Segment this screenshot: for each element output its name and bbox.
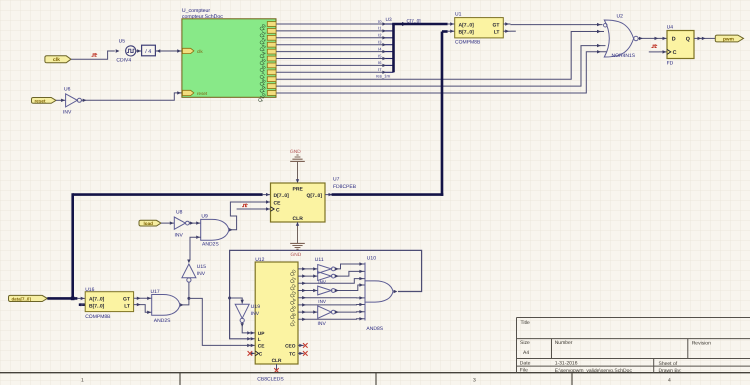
zone dividers	[180, 373, 572, 385]
svg-text:D: D	[672, 37, 676, 43]
U12 C pin no-connect X	[248, 351, 253, 356]
inverter U11 (row Q0)	[318, 265, 335, 274]
svg-text:U16: U16	[85, 287, 94, 293]
wire Q6 to bus entry I6	[276, 60, 393, 67]
junction dot for U19 branch	[228, 297, 231, 300]
wire U12 Q7 to U10 input	[298, 317, 365, 321]
wire U6 to sheet reset pin	[81, 93, 182, 100]
svg-text:Drawn By:: Drawn By:	[659, 368, 682, 374]
svg-text:INV: INV	[251, 311, 260, 317]
and gate U10 AND8S	[365, 256, 397, 333]
wire Q4 to bus entry I4	[276, 46, 393, 53]
GND power port below U7 CLR	[290, 222, 305, 258]
svg-text:FD8CPEB: FD8CPEB	[333, 184, 357, 190]
svg-text:CB8CLEDS: CB8CLEDS	[257, 376, 284, 382]
svg-text:CEO: CEO	[285, 344, 296, 350]
wire clk to U5	[71, 51, 115, 59]
inverter U11 (row Q3)	[318, 286, 335, 295]
wire U9 out to U7 CE	[229, 202, 238, 230]
svg-text:D[7..0]: D[7..0]	[274, 193, 290, 199]
svg-text:U7: U7	[333, 177, 340, 183]
svg-text:INV: INV	[197, 271, 206, 277]
and gate U17 AND2S	[151, 289, 184, 324]
svg-text:B[7..0]: B[7..0]	[89, 304, 105, 310]
svg-text:U2: U2	[617, 14, 624, 20]
wire U16 GT to U17 input 1	[134, 297, 152, 299]
wire U15 to U9 input 2	[190, 237, 201, 260]
inverter U11 (row Q1)	[318, 272, 335, 281]
sheet entry Q6	[259, 63, 276, 74]
counter U12 CB8CLEDS	[247, 257, 298, 383]
wire U12 Q6 to inverter	[298, 310, 318, 313]
wire U5 to /4 box	[136, 50, 142, 52]
svg-text:LT: LT	[494, 30, 500, 36]
U12 CLR stub and X	[276, 364, 278, 370]
svg-text:U1: U1	[455, 11, 462, 17]
sheet entry Q9	[259, 84, 276, 95]
sheet entry Q2	[259, 35, 276, 46]
svg-text:/ 4: / 4	[145, 49, 151, 55]
wire Q5 to bus entry I5	[276, 53, 393, 60]
svg-text:Revision: Revision	[692, 340, 711, 346]
svg-text:reset: reset	[197, 91, 208, 96]
title block	[517, 318, 750, 373]
wire Q9 to U2 input 3	[276, 44, 605, 86]
bus stub to U1 B	[442, 30, 448, 33]
svg-text:Q: Q	[686, 37, 690, 43]
wire inverter out to U10 input	[335, 262, 365, 270]
wire U12 Q3 to inverter	[298, 289, 318, 292]
wire reset port to U6	[56, 99, 66, 101]
svg-text:A[7..0]: A[7..0]	[459, 22, 475, 28]
svg-text:U15: U15	[197, 264, 206, 270]
svg-text:A4: A4	[523, 350, 529, 356]
svg-text:Size: Size	[520, 340, 530, 346]
svg-text:GT: GT	[493, 22, 500, 28]
svg-text:COMPM8B: COMPM8B	[455, 40, 481, 46]
wire Q0 to bus entry I0	[276, 19, 393, 26]
svg-text:COMPM8B: COMPM8B	[85, 314, 111, 320]
sheet entry Q8	[259, 77, 276, 88]
svg-text:A[7..0]: A[7..0]	[89, 296, 105, 302]
svg-text:INV: INV	[318, 299, 327, 304]
svg-text:UP: UP	[258, 331, 265, 337]
svg-text:L: L	[258, 337, 261, 343]
port data[7..0]	[9, 295, 48, 301]
wire inverter out to U10 input	[335, 270, 365, 278]
svg-text:1-31-2016: 1-31-2016	[555, 361, 578, 367]
nor gate U2 NOR4N1S	[604, 14, 639, 60]
wire U12 Q1 to inverter	[298, 274, 318, 277]
wire Q3 to bus entry I3	[276, 40, 393, 47]
svg-text:Number: Number	[555, 340, 573, 346]
svg-text:U12: U12	[255, 257, 264, 263]
port pwm	[715, 35, 743, 42]
bus vertical from data port	[71, 193, 74, 298]
svg-text:AND8S: AND8S	[366, 326, 383, 332]
svg-text:3: 3	[473, 377, 476, 383]
svg-text:Q[7..0]: Q[7..0]	[306, 193, 322, 199]
bus collector C[7..0] vertical	[392, 24, 395, 72]
bus data port to U16 A	[47, 297, 77, 300]
svg-text:CE: CE	[274, 201, 282, 207]
svg-text:C[7..0]: C[7..0]	[407, 18, 421, 24]
flip-flop U4 FD	[659, 25, 702, 67]
bus arrow glyph	[400, 22, 405, 25]
svg-text:U3: U3	[386, 17, 392, 23]
wire stub U4 C with no-ERC	[649, 51, 659, 53]
wire U1 GT to U2 input 1	[511, 24, 603, 26]
svg-text:File: File	[520, 368, 528, 374]
svg-text:Sheet of: Sheet of	[659, 361, 678, 367]
port clk	[45, 56, 71, 63]
svg-text:B[7..0]: B[7..0]	[459, 30, 475, 36]
svg-text:NOR4N1S: NOR4N1S	[612, 53, 636, 59]
port reset	[32, 98, 57, 104]
svg-text:U4: U4	[667, 25, 674, 31]
svg-text:U9: U9	[201, 213, 208, 219]
svg-text:AND2S: AND2S	[154, 318, 171, 324]
sheet border bottom line	[0, 372, 750, 374]
wire U12 Q0 to inverter	[298, 267, 318, 270]
and gate U9 AND2S	[196, 213, 233, 247]
U12 TC stub and X	[298, 352, 304, 354]
sheet entry Q1	[259, 29, 276, 40]
svg-text:U5: U5	[119, 39, 126, 45]
wire inverter out to U10 input	[335, 310, 365, 314]
wire inverter out to U10 input	[335, 283, 365, 292]
svg-text:reset: reset	[35, 98, 46, 103]
wire /4 box to sheet clk pin	[155, 50, 182, 52]
wire load to U8	[161, 222, 174, 224]
svg-text:CLR: CLR	[272, 358, 282, 364]
U16 A pin	[77, 297, 85, 299]
svg-text:CLR: CLR	[293, 216, 304, 222]
svg-text:clk: clk	[53, 57, 60, 63]
svg-text:FD: FD	[667, 60, 674, 66]
svg-text:U6: U6	[64, 87, 71, 93]
svg-text:C: C	[276, 208, 280, 214]
svg-text:4: 4	[668, 377, 671, 383]
bus U7 Q to right	[325, 194, 333, 196]
svg-text:Title: Title	[521, 320, 530, 326]
sheet symbol U_compteur	[182, 8, 276, 97]
svg-text:CE: CE	[258, 344, 265, 350]
svg-text:U8: U8	[176, 209, 183, 215]
svg-text:res_1m: res_1m	[376, 74, 390, 79]
svg-text:C: C	[259, 352, 263, 358]
wire U12 Q2 to U10 input	[298, 277, 365, 285]
wire Q10 to U2 input 4	[276, 50, 607, 93]
wire U19 out to U12 UP	[242, 323, 247, 333]
inverter U11 (row Q6)	[318, 306, 335, 318]
sheet entry Q10	[257, 91, 276, 104]
sheet entry Q7	[259, 70, 276, 81]
wire Q8 / net res_1m to U2 input 2	[276, 30, 604, 79]
svg-text:GND: GND	[291, 252, 302, 258]
wire junction to U12 CE	[189, 298, 248, 345]
clock divider U5 CDIV4	[116, 39, 135, 64]
svg-text:U19: U19	[251, 304, 260, 310]
svg-text:pwm: pwm	[723, 37, 734, 42]
no-ERC directive on U7 C stub	[242, 204, 247, 207]
bus C[7..0] horizontal to U1 A	[392, 23, 447, 26]
inverter U15 (points up, bubble low)	[182, 260, 206, 283]
svg-text:U10: U10	[367, 256, 376, 262]
wire U17 out to junction	[180, 282, 189, 305]
inverter U19 (points down)	[235, 304, 249, 322]
U12 rotated Q pin names	[289, 269, 298, 328]
sheet entry Q4	[259, 49, 276, 60]
comparator U16 COMPM8B	[85, 287, 133, 320]
svg-text:LT: LT	[124, 304, 130, 310]
U12 CEO stub and X	[298, 344, 304, 346]
svg-text:C: C	[673, 50, 677, 56]
sheet entry Q5	[259, 56, 276, 67]
no-ERC directive on clk wire	[92, 53, 97, 56]
sheet entry reset	[182, 90, 208, 96]
wire U4 Q to port pwm	[702, 37, 715, 39]
svg-text:CDIV4: CDIV4	[116, 57, 131, 63]
sheet entry clk	[182, 48, 203, 54]
U16 B bus stub	[79, 303, 85, 306]
sheet entry Q3	[259, 42, 276, 53]
svg-text:E:\servopwm_valide\servo.SchDo: E:\servopwm_valide\servo.SchDoc	[555, 368, 633, 374]
inverter U8	[174, 209, 189, 238]
GND power port above U7 PRE	[290, 149, 305, 183]
register U7 FD8CPEB	[237, 177, 357, 223]
svg-text:INV: INV	[63, 109, 72, 115]
svg-text:PRE: PRE	[293, 187, 304, 193]
comparator U1 COMPM8B	[448, 11, 511, 45]
svg-text:INV: INV	[318, 321, 327, 327]
wire Q2 to bus entry I2	[276, 33, 393, 40]
bus data to U7 D horizontal	[73, 193, 263, 196]
svg-text:AND2S: AND2S	[202, 242, 219, 248]
wire U8 to U9 input 1	[189, 222, 200, 224]
divide-by-4 box	[142, 45, 156, 56]
wire stub U1 LT open	[511, 30, 516, 32]
svg-text:TC: TC	[289, 352, 296, 358]
wire U2 out to U4 D	[638, 37, 659, 39]
svg-text:data[7..0]: data[7..0]	[12, 297, 32, 302]
wire U12 Q5 to U10 input	[298, 303, 365, 307]
svg-text:GT: GT	[123, 296, 130, 302]
wire junction to U19 input	[230, 298, 243, 304]
sheet entry Q0	[259, 22, 276, 33]
svg-text:GND: GND	[290, 149, 301, 155]
svg-text:U17: U17	[151, 289, 160, 295]
svg-text:INV: INV	[318, 280, 327, 285]
svg-text:Date: Date	[520, 361, 531, 367]
bus junction	[71, 297, 75, 301]
svg-text:INV: INV	[175, 233, 184, 239]
bus U7 Q to U1 B vertical	[441, 32, 444, 196]
svg-text:load: load	[144, 221, 154, 226]
wire U16 LT to U17 input 2	[134, 305, 152, 313]
wire Q1 to bus entry I1	[276, 26, 393, 33]
svg-text:clk: clk	[197, 49, 203, 54]
svg-text:1: 1	[81, 377, 84, 383]
port load	[139, 220, 161, 226]
wire U12 Q4 to U10 input	[298, 296, 365, 300]
svg-text:U11: U11	[315, 257, 324, 263]
inverter U6	[63, 87, 81, 116]
loop wire U10 out to L pin	[230, 250, 422, 338]
wire Q7 to bus entry I7	[276, 67, 393, 74]
junction dot	[187, 297, 190, 300]
